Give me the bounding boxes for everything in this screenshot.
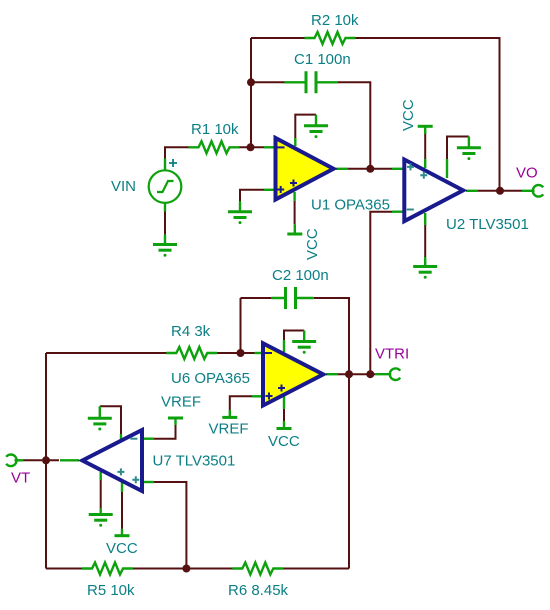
VREF rail (U6 noninverting) — [222, 410, 237, 417]
wire: C1 left lead dark — [251, 81, 285, 83]
op-amp U1 OPA365 — [276, 138, 334, 200]
junction: VTRI node — [366, 370, 374, 378]
green pin: U1 noninverting input lead — [264, 189, 275, 191]
wire: U2 bottom supply pin to ground — [424, 224, 426, 257]
green wire: VT terminal lead — [15, 459, 24, 461]
wire: C2 left column to R4 node — [240, 298, 242, 353]
wire: U7 minus input to VREF — [154, 425, 176, 439]
wire: R6 column up to VTRI node — [348, 374, 350, 568]
svg-text:U2 TLV3501: U2 TLV3501 — [446, 216, 529, 233]
wire: R4 row left — [46, 352, 167, 354]
ground (U7 top supply) — [88, 406, 112, 430]
source VIN — [149, 159, 182, 212]
wire: VIN source to ground — [164, 211, 166, 235]
wire: C2 left lead dark — [241, 297, 272, 299]
wire: U6 output to VTRI — [338, 373, 374, 375]
VCC rail (U6 bottom) — [277, 421, 292, 429]
ground (U1 top supply) — [304, 115, 328, 139]
wire: U7 plus input feedback to bottom rail — [154, 482, 186, 569]
svg-text:U7 TLV3501: U7 TLV3501 — [153, 453, 236, 470]
green pin: U7 shutdown stub — [99, 472, 101, 480]
resistor R1 — [189, 141, 240, 153]
wire: VTRI node dark segment — [370, 373, 375, 375]
svg-text:R1 10k: R1 10k — [191, 121, 239, 138]
svg-text:VCC: VCC — [304, 228, 321, 260]
wire: R1 to U1 inverting input — [239, 146, 264, 148]
wire: U1 output to U2 plus input — [347, 168, 392, 170]
wire: C2 right to VTRI node — [314, 298, 349, 374]
green pin: U6 minus input lead — [255, 352, 265, 354]
wire: R2 feedback top rail — [251, 37, 500, 39]
op-amp U6 OPA365 — [263, 343, 323, 405]
green pin: U6 bottom supply stub — [283, 396, 285, 409]
junction: U1 output node — [366, 165, 374, 173]
ground (U6 top supply) — [292, 331, 316, 354]
ground (U2 bottom supply) — [413, 257, 437, 279]
terminal VT — [6, 455, 16, 467]
green pin: U2 shutdown stub — [446, 159, 448, 178]
svg-text:VT: VT — [11, 470, 30, 487]
junction: U6 output node — [345, 370, 353, 378]
green pin: U2 minus input lead — [392, 210, 404, 212]
wire: U1 top supply pin to ground jog — [295, 115, 316, 138]
wire: bottom rail — [46, 568, 349, 570]
svg-text:U1 OPA365: U1 OPA365 — [311, 197, 390, 214]
junction: R5/R6 node — [182, 565, 190, 573]
svg-text:VTRI: VTRI — [375, 346, 409, 363]
wire: left column R1 node up to R2 — [250, 38, 252, 147]
svg-text:VCC: VCC — [106, 540, 138, 557]
green pin: U1 inverting input lead — [264, 146, 275, 148]
terminal VTRI — [390, 368, 400, 380]
wire: U1 bottom supply pin to VCC — [294, 201, 296, 224]
VCC rail (U1 bottom) — [287, 224, 302, 234]
green pin: U7 top supply stub — [120, 434, 122, 441]
green pin: U1 top supply stub — [294, 138, 296, 146]
green pin: U2 bottom supply stub — [424, 213, 426, 225]
svg-text:R6 8.45k: R6 8.45k — [228, 582, 289, 599]
ground (VIN source) — [153, 235, 177, 257]
green pin: U2 VCC stub — [424, 159, 426, 168]
wire: C1 right to U1 output node — [337, 82, 370, 169]
junction: R4/C2/U6 node — [237, 349, 245, 357]
svg-text:VO: VO — [516, 165, 538, 182]
junction: R2/C1 node — [247, 78, 255, 86]
wire: R4 to U6 minus input — [217, 352, 255, 354]
ground (U2 shutdown) — [457, 137, 481, 161]
junction: VO node — [496, 187, 504, 195]
wire: U7 top supply pin to ground jog — [100, 406, 121, 437]
resistor R4 — [166, 347, 217, 359]
wire: U2 output to VO — [478, 190, 522, 192]
ground (U7 shutdown) — [89, 508, 113, 526]
comparator U7 TLV3501 — [82, 430, 142, 491]
green pin: U7 plus input lead — [143, 481, 154, 483]
wire: U7 VCC pin — [121, 484, 123, 529]
green pin: U6 output lead — [326, 373, 338, 375]
wire: U6 noninverting input to VREF — [230, 396, 252, 410]
wire: U7 output to VT — [24, 459, 60, 461]
green wire: VO terminal lead — [522, 190, 535, 192]
green pin: U7 minus input lead — [143, 438, 154, 440]
svg-text:U6 OPA365: U6 OPA365 — [171, 370, 250, 387]
resistor R6 — [232, 563, 283, 575]
green wire: VTRI terminal lead — [375, 373, 391, 375]
wire: U2 VCC pin — [424, 131, 426, 159]
svg-text:R2 10k: R2 10k — [311, 12, 359, 29]
green pin: U7 VCC stub — [121, 482, 123, 492]
wire: U7 shutdown pin to ground — [100, 476, 102, 508]
green pin: U1 bottom supply stub — [293, 192, 295, 201]
wire: U2 shutdown pin to ground jog — [447, 137, 469, 160]
VCC rail (U2 top) — [418, 126, 433, 134]
svg-text:R4 3k: R4 3k — [171, 323, 211, 340]
capacitor C1 — [285, 71, 338, 93]
VCC rail (U7 bottom) — [115, 529, 130, 536]
svg-text:VCC: VCC — [268, 433, 300, 450]
wire: VIN to R1 — [165, 147, 189, 159]
wire: left column R4 to VT to bottom rail — [45, 353, 47, 569]
wire: right column R2 to VO node — [499, 37, 501, 191]
green pin: U6 plus input lead — [252, 395, 264, 397]
wire: U6 bottom supply pin to VCC — [283, 407, 285, 421]
svg-text:C1 100n: C1 100n — [294, 51, 351, 68]
wire: U2 minus input to VTRI column — [370, 212, 392, 375]
ground (U1 noninverting input) — [228, 201, 252, 224]
svg-text:C2 100n: C2 100n — [272, 267, 329, 284]
resistor R2 — [305, 32, 356, 44]
green pin: U6 top supply stub — [283, 340, 285, 352]
comparator U2 TLV3501 — [404, 160, 463, 222]
VREF rail (U7 minus input) — [168, 418, 183, 425]
svg-text:VCC: VCC — [400, 99, 417, 131]
svg-text:VREF: VREF — [161, 394, 201, 411]
resistor R5 — [82, 563, 133, 575]
green pin: U1 output lead — [336, 168, 348, 170]
terminal VO — [533, 185, 543, 197]
junction: VT node — [42, 456, 50, 464]
svg-text:R5 10k: R5 10k — [87, 582, 135, 599]
capacitor C2 — [271, 287, 313, 309]
svg-text:VREF: VREF — [209, 421, 249, 438]
green pin: U7 output lead — [60, 459, 79, 461]
junction: R1/U1 inverting node — [247, 143, 255, 151]
green pin: U2 plus input lead — [392, 168, 404, 170]
wire: U6 top supply pin to ground jog — [284, 331, 304, 348]
green pin: U2 output lead — [466, 190, 478, 192]
wire: U1 noninverting input to ground — [240, 190, 264, 201]
svg-text:VIN: VIN — [111, 178, 136, 195]
